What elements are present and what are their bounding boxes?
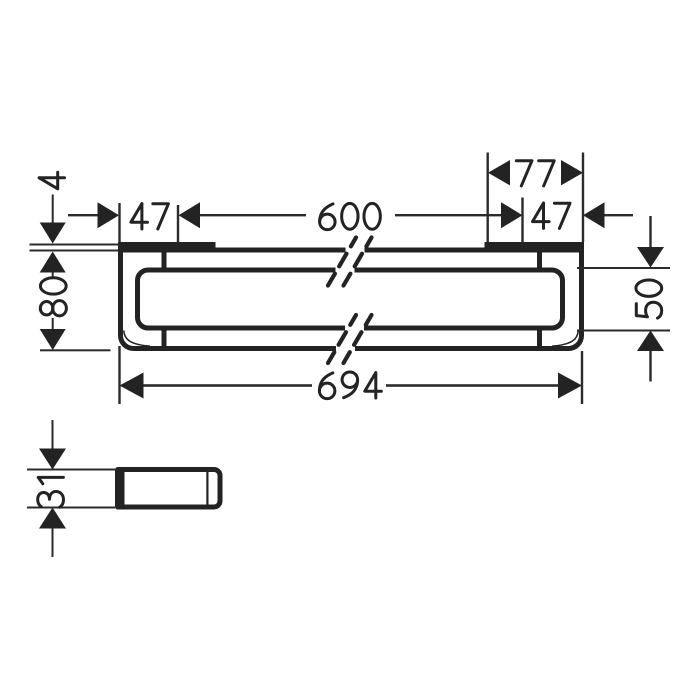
- dim 50 arrow down: [637, 247, 664, 268]
- dim 80 arrow down: [40, 329, 66, 350]
- dim 50 bottom tail: [649, 351, 651, 382]
- dim 4 leader line: [52, 195, 54, 223]
- dim 47 left arrow: [98, 202, 120, 228]
- dim 600 line left seg: [200, 214, 306, 216]
- dim 47 right tail: [605, 214, 634, 216]
- break gap shell bottom: [336, 345, 355, 354]
- dim 600 line right seg: [395, 214, 501, 216]
- break gap bar bottom: [345, 325, 364, 334]
- ext line 77 left: [487, 153, 489, 243]
- dim 600 label: [320, 203, 381, 229]
- break gap bar top: [336, 266, 355, 275]
- dim 47 right arrow: [583, 202, 605, 228]
- lower break slash 2: [344, 315, 372, 363]
- right mounting plate tab: [485, 242, 585, 252]
- dim 31 top tail: [52, 420, 54, 449]
- dim 31 arrow down: [39, 449, 66, 470]
- shell inner corner line right: [552, 331, 578, 347]
- dim 77 arrow right: [561, 160, 583, 185]
- wall line lower: [30, 250, 119, 252]
- side view end cap line: [206, 472, 208, 506]
- dim 50 top tail: [649, 216, 651, 247]
- shell inner corner line left: [124, 331, 150, 347]
- break gap shell top: [346, 246, 365, 255]
- left mounting plate tab: [118, 242, 216, 252]
- lower break slash 1: [328, 315, 356, 363]
- dim 80 arrow up: [40, 252, 66, 273]
- side view wall plate: [115, 467, 125, 510]
- dim 77 label: [516, 161, 554, 186]
- dim 80 line upper seg: [52, 273, 54, 277]
- ext line right edge: [582, 153, 584, 243]
- dim 694 arrow left: [120, 373, 144, 399]
- dim 50 label: [636, 280, 662, 318]
- side view body: [118, 470, 221, 508]
- dim 31 ext top: [27, 469, 115, 471]
- dim 4 arrow down: [40, 223, 66, 244]
- ext line 694 right: [581, 351, 583, 404]
- dim 77 arrow left: [488, 160, 510, 185]
- dim 47 left label: [131, 204, 168, 229]
- upper break slash 2: [344, 238, 372, 286]
- ext line 600 right: [521, 198, 523, 243]
- dim 600 arrow right: [501, 202, 523, 228]
- dim 600 arrow left: [179, 202, 201, 228]
- dim 50 ext bottom: [577, 330, 670, 332]
- ext line left 47: [177, 205, 179, 242]
- dim 31 label: [38, 477, 64, 507]
- dim 80 bottom tick: [40, 349, 111, 351]
- dim 47 right label: [533, 203, 571, 228]
- dim 694 line right seg: [386, 384, 559, 387]
- wall line upper: [30, 244, 119, 246]
- ext line left edge: [118, 203, 120, 242]
- left post inner edge: [162, 251, 167, 347]
- dim 50 arrow up: [637, 331, 664, 352]
- shell outer contour: [121, 242, 582, 349]
- dim 47 left tail: [68, 214, 98, 216]
- dim 31 arrow up: [39, 508, 66, 529]
- shell top line: [118, 248, 584, 253]
- dim 80 label: [40, 278, 66, 316]
- towel bar tube: [138, 270, 563, 328]
- dim 31 bottom tail: [52, 529, 54, 558]
- dim 31 ext bottom: [27, 507, 115, 509]
- dim 694 label: [319, 372, 381, 399]
- dim 50 ext top: [577, 267, 670, 269]
- upper break slash 1: [328, 238, 356, 286]
- dim 80 line lower seg: [52, 318, 54, 330]
- dim 694 arrow right: [558, 373, 582, 399]
- ext line 694 left: [118, 346, 120, 404]
- right post inner edge: [537, 251, 542, 347]
- dim 4 label: [39, 172, 64, 189]
- dim 694 line left seg: [144, 384, 313, 387]
